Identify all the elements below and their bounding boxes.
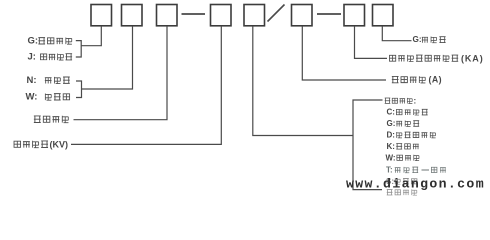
- svg-text:G:: G:: [28, 36, 39, 47]
- box 8 altitude code: [373, 5, 394, 26]
- slash between box5 and box6: [268, 5, 285, 22]
- box 4 rated voltage: [211, 5, 232, 26]
- wire from box5 down to derivation-code bracket: [253, 26, 353, 136]
- wire from box2 down to N/W bracket: [82, 26, 133, 89]
- label rated voltage (KV): [14, 141, 21, 147]
- box 2 indoor/outdoor letter: [122, 5, 143, 26]
- svg-text::: :: [414, 96, 417, 105]
- svg-text:K:: K:: [387, 142, 395, 151]
- derivation list vertical bracket with top and bottom ticks: [353, 100, 383, 190]
- wire from box7 down to peak-through-current label: [355, 26, 388, 58]
- svg-text:W:: W:: [26, 91, 38, 102]
- wire from box3 down to design-serial label: [74, 26, 168, 120]
- wire from box8 down to high-altitude label: [382, 26, 411, 41]
- label peak through-current (KA): [389, 55, 395, 61]
- svg-text:G:: G:: [387, 119, 396, 128]
- box 5 derivation code: [244, 5, 265, 26]
- svg-text:J:: J:: [28, 51, 36, 62]
- box 7 peak through current: [344, 5, 365, 26]
- wire from box1 down to G/J bracket: [81, 26, 101, 46]
- svg-text:C:: C:: [387, 108, 395, 117]
- bracket joining N and W rows: [76, 81, 82, 98]
- wire from box4 down to rated-voltage label: [71, 26, 221, 144]
- list heading derivation codes: [385, 98, 391, 103]
- bracket joining G and J rows: [76, 41, 81, 57]
- box 3 design serial number: [157, 5, 178, 26]
- box 1 switch-type letter: [91, 5, 112, 26]
- svg-text:G:: G:: [413, 35, 422, 44]
- svg-text:(A): (A): [429, 75, 442, 85]
- svg-text:T:: T:: [386, 166, 393, 175]
- dash between box6 and box7: [317, 13, 341, 15]
- svg-text:(KV): (KV): [50, 139, 69, 149]
- last faint list item clipped at bottom: [387, 190, 393, 195]
- dash between box3 and box4: [182, 13, 206, 15]
- svg-text:N:: N:: [27, 75, 37, 86]
- svg-text:W:: W:: [386, 153, 396, 162]
- svg-text:(KA): (KA): [461, 53, 484, 63]
- svg-text:www.diangon.com: www.diangon.com: [346, 176, 485, 191]
- wire from box6 down to rated-current label: [302, 26, 386, 80]
- box 6 rated current: [292, 5, 313, 26]
- svg-text:D:: D:: [387, 131, 395, 140]
- label design serial number: [34, 116, 41, 123]
- label rated current (A): [392, 76, 399, 82]
